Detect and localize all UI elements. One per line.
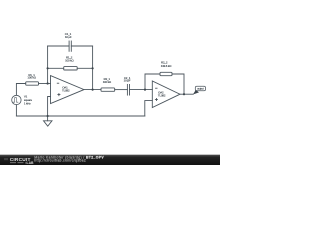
wire V1 bottom stub xyxy=(15,105,17,116)
watermark bar xyxy=(0,155,220,165)
wire R2_2 loop right vertical xyxy=(172,74,184,94)
svg-text:1 kHz: 1 kHz xyxy=(24,101,31,105)
wire OA1 output xyxy=(84,89,101,91)
wire V1 top to R1_1 xyxy=(16,84,25,96)
wire R1_1 to OA1 inverting input xyxy=(39,83,51,85)
wire OA2 non-inverting input down xyxy=(145,101,153,116)
node output junction xyxy=(183,93,185,95)
wire R2_2 loop left vertical xyxy=(145,74,160,90)
wire feedback-loop right vertical xyxy=(92,46,94,90)
junction node dots xyxy=(47,67,186,117)
svg-text:100 kΩ: 100 kΩ xyxy=(27,76,36,80)
wire feedback-loop left vertical xyxy=(47,46,49,84)
resistor R1_1 xyxy=(26,82,39,85)
wire C1_1 branch left xyxy=(48,45,70,47)
op-amp U2 OA2 xyxy=(152,81,180,108)
svg-text:http://circuitlab.com/c/q3ba2: http://circuitlab.com/c/q3ba2 xyxy=(34,159,86,163)
resistor R2_2 xyxy=(160,72,172,75)
svg-text:output: output xyxy=(197,87,204,91)
wire OA2 output to flag xyxy=(180,93,193,95)
output flag xyxy=(193,86,206,94)
wire C1_1 branch right xyxy=(71,45,92,47)
node OA1 inverting input junction xyxy=(47,82,49,84)
node R1_2 left junction xyxy=(47,67,49,69)
wire bottom rail xyxy=(16,115,144,117)
node R2_2 tap junction xyxy=(144,89,146,91)
wire C2_1 to OA2 inverting input xyxy=(130,89,153,91)
svg-text:TL082: TL082 xyxy=(62,88,70,92)
capacitor C2_1 xyxy=(127,84,129,95)
capacitor C1_1 xyxy=(69,41,71,51)
svg-text:10 µF: 10 µF xyxy=(124,79,131,83)
ground xyxy=(44,116,53,126)
node R1_2 right junction xyxy=(92,67,94,69)
svg-text:10 µF: 10 µF xyxy=(65,35,72,39)
wire R1_2 branch right xyxy=(77,67,92,69)
svg-text:100 kΩ: 100 kΩ xyxy=(103,80,112,84)
wire OA1 non-inverting input down to ground net xyxy=(48,97,51,117)
svg-text:TL082: TL082 xyxy=(158,94,166,98)
wire R1_2 branch left xyxy=(48,67,64,69)
resistor R1_2 xyxy=(64,67,77,70)
op-amp U1 OA1 xyxy=(51,76,85,104)
watermark CircuitLab logo xyxy=(4,157,34,165)
watermark credit text xyxy=(34,155,104,162)
svg-text:133.6 kΩ: 133.6 kΩ xyxy=(161,64,172,68)
voltage source V1 xyxy=(12,95,21,104)
node ground junction xyxy=(47,115,49,117)
svg-text:100 kΩ: 100 kΩ xyxy=(65,58,74,62)
wire R2_1 to C2_1 xyxy=(115,89,128,91)
op-amp OA2 pin polarity marks xyxy=(155,88,158,101)
svg-text:▪LAB: ▪LAB xyxy=(25,161,34,165)
op-amp OA1 pin polarity marks xyxy=(57,83,61,96)
resistor R2_1 xyxy=(101,88,115,91)
node OA1 output junction xyxy=(92,89,94,91)
